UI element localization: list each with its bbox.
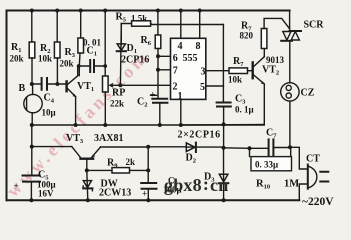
- svg-text:7: 7: [173, 65, 178, 76]
- svg-text:22k: 22k: [110, 99, 124, 109]
- bottom supply rail: [7, 199, 300, 201]
- wire: base bias bus: [87, 169, 148, 171]
- svg-text:10k: 10k: [228, 75, 242, 85]
- zener diode DW 2CW13: [87, 170, 88, 200]
- ground bus wire (mid): [32, 124, 265, 126]
- svg-text:555: 555: [183, 53, 198, 64]
- node: rail dot R2: [55, 9, 59, 13]
- wire: pin4 lead: [180, 11, 182, 39]
- node: C6 bottom dot: [146, 198, 150, 202]
- svg-text:5: 5: [200, 82, 205, 93]
- svg-text:2CW13: 2CW13: [99, 188, 131, 199]
- svg-text:CT: CT: [306, 154, 320, 165]
- svg-text:6: 6: [173, 53, 178, 64]
- node: collector/C1 junction: [77, 64, 81, 68]
- resistor R5 1.5k: [121, 24, 131, 45]
- svg-text:20k: 20k: [60, 59, 74, 69]
- node: 0.33 box left dot: [248, 146, 252, 150]
- node: VT1 emitter dot: [74, 123, 78, 127]
- wire: pin7 stub: [158, 69, 171, 71]
- node: mic bottom dot on ground bus: [30, 123, 34, 127]
- op-amp U1 555 timer box: [171, 38, 206, 99]
- svg-text:1: 1: [178, 91, 183, 102]
- svg-text:+: +: [14, 181, 19, 191]
- svg-text:+: +: [142, 189, 147, 199]
- svg-text:0. 1μ: 0. 1μ: [235, 105, 254, 115]
- node: mic top junction: [30, 82, 34, 86]
- node: rail dot R6: [156, 9, 160, 13]
- svg-text:2CP16: 2CP16: [121, 55, 149, 66]
- wire: collector to C1: [79, 65, 106, 67]
- svg-text:+: +: [150, 90, 155, 100]
- wire: base coupling: [32, 83, 66, 85]
- svg-text:1M: 1M: [284, 179, 299, 190]
- node: pin7 dot: [156, 68, 160, 72]
- svg-text:820: 820: [240, 31, 254, 41]
- node: C2 bottom dot: [158, 123, 162, 127]
- svg-text:9013: 9013: [266, 55, 285, 65]
- resistor R7 820: [261, 29, 267, 49]
- resistor R1: [31, 11, 33, 43]
- resistor R7 10k: [229, 68, 248, 74]
- wire: pin5 stub: [206, 85, 224, 87]
- wire: lamp down to C7 bus: [289, 101, 291, 147]
- transistor VT1: [65, 80, 67, 92]
- resistor R2: [56, 11, 58, 43]
- lamp CZ: [281, 83, 299, 101]
- transistor VT2 9013: [252, 61, 254, 79]
- watermark band 1: [2, 46, 153, 201]
- node: rail dot R1: [30, 9, 34, 13]
- node: C6 top dot: [146, 145, 150, 149]
- node: D3 bottom dot: [222, 198, 226, 202]
- wire: pin3 stub: [206, 70, 229, 72]
- diode D2: [186, 146, 224, 148]
- wire: pin1 lead down: [180, 99, 182, 125]
- capacitor C1 0.01: [90, 60, 94, 72]
- microphone B: [24, 94, 42, 112]
- svg-text:B: B: [19, 83, 26, 94]
- capacitor C7: [269, 139, 274, 155]
- svg-text:CZ: CZ: [301, 88, 315, 99]
- capacitor C2: [152, 99, 167, 103]
- capacitor C8 0.33u box: [250, 148, 291, 156]
- capacitor C3 0.1u: [217, 103, 231, 107]
- diode D3: [219, 174, 228, 182]
- wire: vcc branch down to C3: [222, 25, 224, 103]
- resistor R9 2k: [112, 168, 130, 173]
- node: R9/C6 dot: [146, 168, 150, 172]
- node: C1/RP junction: [103, 64, 107, 68]
- node: lamp/C7 junction: [288, 145, 292, 149]
- resistor R3: [80, 11, 82, 39]
- node: rail dot RP chain: [103, 9, 107, 13]
- svg-text:8: 8: [196, 41, 201, 52]
- capacitor C4: [42, 78, 47, 90]
- node: DW bottom dot: [86, 198, 90, 202]
- node: C5 bottom dot: [29, 198, 33, 202]
- svg-text:SCR: SCR: [304, 20, 325, 31]
- left border wire: [6, 11, 8, 201]
- svg-text:2×2CP16: 2×2CP16: [178, 130, 221, 141]
- node: RP bottom dot: [103, 123, 107, 127]
- svg-text:~220V: ~220V: [302, 196, 334, 208]
- svg-text:2k: 2k: [126, 157, 136, 167]
- node: C3/ground bus dot: [222, 122, 226, 126]
- potentiometer RP: [103, 76, 109, 92]
- wire: D3 column: [223, 148, 225, 201]
- node: C5 top dot: [30, 145, 34, 149]
- diode D1 2CP16: [119, 24, 122, 86]
- thyristor SCR (triac): [289, 11, 291, 32]
- node: rail dot pin8: [198, 9, 202, 13]
- svg-text:3: 3: [201, 66, 206, 77]
- svg-text:10k: 10k: [38, 54, 52, 64]
- plug CT: [299, 184, 307, 200]
- svg-text:16V: 16V: [38, 189, 54, 199]
- wire: C6 column: [147, 147, 149, 201]
- node: D2/D3 junction: [222, 146, 226, 150]
- node: D1 to pin2 wire dot: [118, 83, 122, 87]
- wire: rail to RP chain: [104, 11, 106, 77]
- wire: regulator rail right segment: [101, 146, 187, 148]
- svg-text:0. 33μ: 0. 33μ: [255, 160, 278, 170]
- node: rail dot pin4: [179, 9, 183, 13]
- node: base junction R2: [55, 82, 59, 86]
- capacitor C6 100u: [141, 183, 156, 189]
- wire: pin6 stub: [158, 55, 171, 57]
- svg-text:gbx8:cn: gbx8:cn: [164, 174, 228, 195]
- svg-text:20k: 20k: [10, 54, 24, 64]
- node: rail dot R3: [79, 9, 83, 13]
- svg-text:3AX81: 3AX81: [94, 133, 123, 144]
- top supply rail: [7, 10, 290, 12]
- svg-text:4: 4: [178, 41, 183, 52]
- node: pin6 dot: [156, 54, 160, 58]
- svg-text:10μ: 10μ: [42, 108, 56, 118]
- svg-text:RP: RP: [112, 88, 125, 99]
- resistor R6: [157, 11, 159, 36]
- capacitor C5 100u 16V: [23, 176, 41, 182]
- wire: pin8 lead: [199, 11, 201, 39]
- transistor VT3 3AX81: [72, 147, 101, 158]
- wire: regulator rail left segment: [32, 146, 72, 148]
- wire: C7 bus: [224, 147, 269, 150]
- wire: VT2 emitter bus: [181, 124, 264, 127]
- node: VT3 base dot: [85, 168, 89, 172]
- node: pin1 dot: [179, 123, 183, 127]
- svg-text:1.5k: 1.5k: [131, 14, 147, 24]
- wire: mic column down: [31, 125, 33, 175]
